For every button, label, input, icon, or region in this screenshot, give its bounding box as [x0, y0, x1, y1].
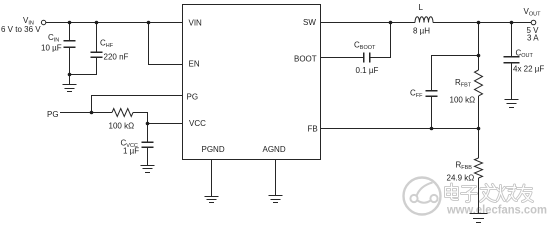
svg-text:FB: FB [308, 125, 318, 134]
svg-text:www.elecfans.com: www.elecfans.com [446, 203, 547, 217]
svg-text:PG: PG [187, 93, 199, 102]
svg-text:8 µH: 8 µH [413, 27, 430, 36]
svg-text:BOOT: BOOT [294, 55, 317, 64]
svg-text:24.9 kΩ: 24.9 kΩ [447, 174, 475, 183]
svg-text:4x 22 µF: 4x 22 µF [513, 65, 544, 74]
svg-text:10 µF: 10 µF [41, 44, 62, 53]
svg-text:RFBT: RFBT [455, 78, 472, 89]
svg-text:6 V to 36 V: 6 V to 36 V [1, 25, 41, 34]
svg-text:220 nF: 220 nF [104, 53, 129, 62]
svg-text:L: L [419, 3, 424, 12]
svg-text:VCC: VCC [189, 119, 206, 128]
svg-text:0.1 µF: 0.1 µF [356, 66, 379, 75]
svg-text:EN: EN [189, 60, 200, 69]
svg-text:100 kΩ: 100 kΩ [109, 122, 135, 131]
svg-text:PG: PG [47, 110, 59, 119]
svg-text:CBOOT: CBOOT [354, 41, 376, 52]
svg-text:VIN: VIN [189, 19, 203, 28]
svg-text:CHF: CHF [100, 39, 114, 50]
svg-text:AGND: AGND [263, 145, 286, 154]
svg-text:3 A: 3 A [527, 34, 539, 43]
svg-text:SW: SW [303, 18, 316, 27]
svg-text:CFF: CFF [410, 89, 423, 100]
svg-text:1 µF: 1 µF [123, 147, 139, 156]
svg-text:100 kΩ: 100 kΩ [450, 96, 476, 105]
svg-text:PGND: PGND [202, 145, 225, 154]
svg-text:COUT: COUT [516, 49, 534, 60]
svg-text:CIN: CIN [48, 33, 59, 44]
svg-text:RFBB: RFBB [456, 161, 473, 172]
svg-text:VOUT: VOUT [524, 7, 542, 18]
